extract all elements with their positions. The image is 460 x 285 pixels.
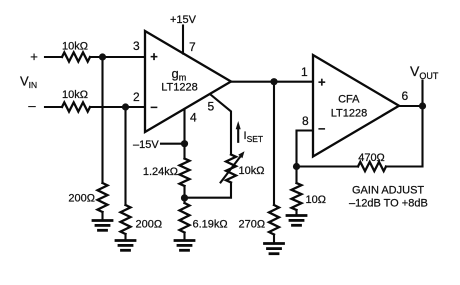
wire node B down to R200b	[124, 107, 126, 205]
wire VOUT stub	[421, 81, 423, 107]
wire R200b to ground	[124, 234, 126, 241]
node dot U1 output	[270, 78, 277, 85]
resistor R 270	[269, 205, 279, 235]
svg-text:ISET: ISET	[244, 130, 264, 144]
wire 10 to ground	[295, 210, 297, 216]
ground below 6.19k	[175, 241, 194, 251]
op-amp U2 CFA LT1228	[313, 55, 399, 157]
ground below R200 left	[93, 221, 112, 231]
svg-text:–: –	[150, 99, 157, 114]
resistor R 6.19k	[180, 203, 190, 233]
wire + input to pin 3	[90, 56, 145, 58]
arrowhead pot wiper	[238, 151, 244, 158]
svg-text:8: 8	[302, 114, 309, 128]
svg-text:5: 5	[208, 100, 215, 114]
resistor R 10k bottom	[62, 102, 90, 111]
svg-text:10Ω: 10Ω	[306, 194, 326, 206]
wire node A down to R200a	[101, 57, 103, 183]
svg-text:4: 4	[190, 111, 197, 125]
node dot input-	[122, 103, 129, 110]
svg-text:+: +	[30, 49, 38, 64]
resistor R 10k top	[62, 52, 90, 61]
svg-text:–: –	[28, 98, 36, 113]
svg-text:VOUT: VOUT	[410, 63, 439, 81]
op-amp U1 gm LT1228	[145, 31, 231, 132]
svg-text:1.24kΩ: 1.24kΩ	[143, 166, 178, 178]
wire R200a to ground	[101, 212, 103, 221]
svg-text:6.19kΩ: 6.19kΩ	[193, 219, 228, 231]
arrow wiper of pot	[221, 156, 241, 182]
wire pin 8 stub	[297, 131, 313, 167]
wire - input	[45, 106, 62, 108]
resistor R 470	[358, 162, 386, 171]
arrow ISET	[237, 128, 239, 142]
svg-text:7: 7	[189, 40, 196, 54]
svg-text:200Ω: 200Ω	[68, 193, 95, 205]
svg-text:200Ω: 200Ω	[136, 219, 163, 231]
wire + input	[45, 56, 62, 58]
wire pot bottom to node C	[185, 183, 232, 198]
ground below R200 second	[116, 241, 135, 251]
arrowhead ISET	[236, 121, 241, 129]
node dot -15V	[181, 140, 188, 147]
svg-text:–: –	[318, 121, 325, 136]
svg-text:3: 3	[133, 39, 140, 53]
wire pin 5 to pot	[211, 95, 232, 155]
wire output U1 to pin 1 U2	[231, 81, 313, 83]
wire feedback node to 470	[297, 165, 359, 167]
svg-text:6: 6	[402, 89, 409, 103]
svg-text:+: +	[318, 75, 326, 90]
ground below R270	[265, 244, 284, 254]
svg-text:CFA: CFA	[338, 94, 360, 106]
svg-text:10kΩ: 10kΩ	[239, 165, 265, 177]
svg-text:270Ω: 270Ω	[239, 219, 266, 231]
svg-text:GAIN ADJUST: GAIN ADJUST	[352, 185, 424, 197]
wire output node down to R270	[273, 82, 275, 205]
wire 270 to ground	[273, 235, 275, 244]
potentiometer R 10k	[226, 155, 236, 183]
svg-text:–15V: –15V	[133, 139, 159, 151]
node dot VOUT	[419, 102, 426, 109]
wire output U2	[399, 105, 423, 107]
wire 6.19k to ground	[183, 233, 185, 241]
svg-text:LT1228: LT1228	[331, 108, 368, 120]
svg-text:+15V: +15V	[170, 14, 197, 26]
svg-text:10kΩ: 10kΩ	[62, 41, 88, 53]
ground below R10	[287, 216, 306, 226]
svg-text:10kΩ: 10kΩ	[62, 89, 88, 101]
wire pin 4 down	[183, 109, 185, 159]
svg-text:VIN: VIN	[20, 74, 37, 91]
svg-text:–12dB TO +8dB: –12dB TO +8dB	[349, 198, 428, 210]
wire pin 7 to +15V	[182, 26, 184, 54]
wire - input to pin 2	[90, 106, 145, 108]
wire 470 to output	[386, 106, 423, 167]
wire 1.24k to 6.19k	[183, 186, 185, 203]
resistor R 200 left	[98, 183, 108, 212]
svg-text:470Ω: 470Ω	[358, 152, 385, 164]
wire node down to R10	[295, 167, 297, 184]
node dot feedback	[293, 163, 300, 170]
wire -15V feed	[161, 143, 185, 145]
resistor R 200 second	[121, 205, 131, 234]
node dot input+	[99, 53, 106, 60]
svg-text:+: +	[150, 49, 158, 64]
svg-text:2: 2	[133, 90, 140, 104]
resistor R 10	[292, 183, 302, 210]
svg-text:1: 1	[301, 65, 308, 79]
node dot C 1.24k/6.19k	[181, 194, 188, 201]
svg-text:LT1228: LT1228	[161, 82, 198, 94]
resistor R 1.24k	[180, 159, 190, 187]
